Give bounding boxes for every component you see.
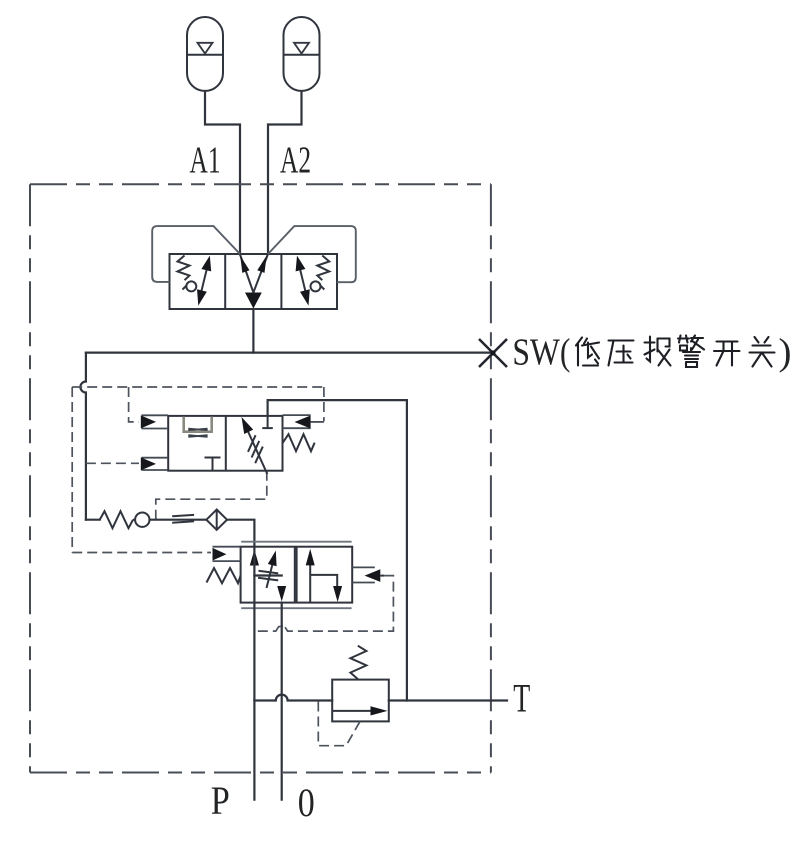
enclosure dashed border [30, 184, 491, 772]
valve V2 body [168, 416, 282, 471]
label CJK low-pressure alarm switch [576, 336, 775, 368]
valve V3 orifice marks [258, 571, 278, 581]
valve V3 bottom rail [241, 607, 351, 609]
wire main horizontal to SW [86, 352, 491, 354]
relief valve pilot dashed [318, 701, 360, 746]
svg-text:A2: A2 [280, 140, 311, 182]
svg-text:P: P [211, 778, 230, 823]
valve V1 left box ball [186, 281, 196, 291]
relief valve spring [350, 646, 366, 680]
wire left drop with jump [80, 353, 86, 520]
pilot dashed left bus [71, 387, 73, 553]
valve V1 left box arrow [197, 256, 211, 306]
svg-text:SW(: SW( [512, 332, 570, 374]
valve V1 right box spring [317, 256, 329, 281]
valve V2 throttle hash marks [248, 435, 263, 463]
valve V1 right box ball [311, 281, 321, 291]
valve V1 right box seat [320, 285, 325, 290]
svg-text:A1: A1 [190, 140, 221, 182]
valve V3 left port stub [213, 547, 241, 561]
valve V3 throttle arrow [267, 551, 277, 589]
valve V2 left top arrow [141, 415, 156, 428]
relief valve internal arrow [332, 706, 387, 715]
valve V2 right pilot arrow [295, 416, 324, 429]
pilot dashed branch to V2 left top [129, 387, 139, 422]
pilot dashed to V2 left bottom [86, 462, 139, 464]
wire from accumulator A2 [268, 91, 302, 254]
wire P column [253, 547, 255, 800]
valve V3 right pilot arrow [365, 569, 385, 582]
wire V1 outlet [252, 309, 254, 353]
wire V2 pilot to right column [268, 400, 407, 700]
valve V2 blocked port T symbol [205, 458, 221, 471]
relief valve RV body [332, 680, 389, 722]
wire diamond to P column [227, 520, 254, 547]
valve V1 center box down arrowhead [245, 293, 262, 309]
valve V2 left bottom arrow [141, 457, 156, 470]
pilot dashed top run [72, 386, 324, 388]
accumulator A2 [284, 17, 320, 91]
svg-text:T: T [513, 676, 530, 721]
pilot dashed from V2 bottom [156, 471, 267, 520]
svg-text:): ) [779, 332, 792, 374]
valve V1 center box converge lines [240, 255, 268, 293]
valve V1 left box seat [183, 285, 188, 290]
pilot dashed down to V2 right [323, 387, 325, 421]
valve V2 spring [283, 434, 315, 451]
valve V1 body [170, 254, 338, 309]
valve V3 spring [207, 568, 241, 583]
check valve diamond [206, 510, 227, 530]
wire ball to orifice [150, 519, 207, 521]
wire from accumulator A1 [205, 91, 240, 254]
valve V1 left box spring [178, 256, 190, 281]
valve V1 center box up arrowheads [240, 256, 266, 273]
valve V2 internal pilot tap [262, 416, 273, 428]
valve V3 top rail [241, 541, 351, 543]
valve V3 branch line [254, 574, 281, 576]
valve V1 left pilot cap [152, 226, 240, 282]
valve V3 right box flow path [306, 549, 342, 603]
wire T line right [389, 699, 507, 701]
accumulator A1 [187, 17, 223, 91]
valve V1 right box arrow [296, 256, 310, 306]
pilot dashed bottom to V3 [72, 552, 211, 554]
valve V3 right port stub [352, 567, 375, 582]
valve V2 throttle diagonal [242, 417, 268, 474]
switch SW symbol [479, 339, 507, 367]
valve V3 P path up arrow [250, 550, 259, 566]
svg-text:0: 0 [298, 780, 315, 825]
spring on check line [100, 511, 133, 528]
wire T line with jump over O [254, 695, 332, 701]
valve V3 left pilot arrow [213, 548, 227, 561]
check ball [133, 513, 150, 527]
valve V2 compensator pocket [184, 417, 212, 437]
valve V2 right port stub [283, 415, 311, 428]
wire O column lower [281, 626, 283, 800]
orifice marks [172, 515, 194, 523]
valve V1 right pilot cap [268, 226, 356, 282]
valve V3 body [241, 547, 353, 603]
wire O column upper [281, 603, 283, 626]
valve V2 left port stubs [142, 415, 169, 470]
valve V3 down arrow to O [277, 586, 286, 602]
pilot dashed from V3 right to P column [254, 576, 393, 632]
wire check line left [86, 519, 100, 521]
